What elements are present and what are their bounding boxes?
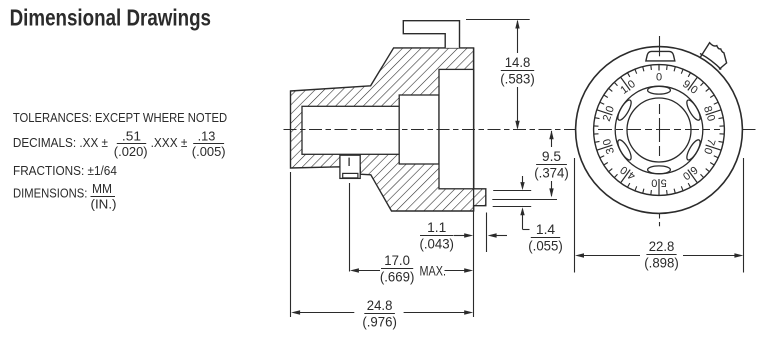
set screw washer [343,173,358,178]
svg-text:(.020): (.020) [114,144,148,159]
tolerance note line 2 [13,128,226,159]
svg-text:(IN.): (IN.) [91,196,117,211]
knob grip dimples [615,86,702,173]
svg-text:DIMENSIONS:: DIMENSIONS: [13,186,87,201]
center line through tab [659,47,661,56]
svg-text:Dimensional Drawings: Dimensional Drawings [10,4,211,30]
svg-text:50: 50 [648,177,667,189]
dim 17.0 label [380,252,415,284]
svg-text:14.8: 14.8 [505,54,531,70]
dim 22.8 arrows [575,253,743,257]
dim 9.5 label [534,148,569,180]
inner circle [627,98,691,162]
dim 1.1 arrow [454,233,473,237]
hub bushing [399,95,439,164]
set screw block [340,155,360,178]
dial scale numbers [600,71,718,188]
dial vertical center line [659,36,661,226]
dial minor tick marks [594,65,725,195]
svg-text:DECIMALS: .XX ±: DECIMALS: .XX ± [13,135,108,150]
dim 17.0 arrows [350,268,473,272]
knob body sectioned profile [291,48,486,211]
svg-text:(.669): (.669) [380,269,415,285]
index window tab [646,51,675,61]
svg-text:(.898): (.898) [644,255,679,271]
crosshair horizontal [598,129,720,131]
svg-text:1.4: 1.4 [536,221,555,237]
svg-text:FRACTIONS: ±1/64: FRACTIONS: ±1/64 [13,163,117,178]
svg-text:1.1: 1.1 [427,219,446,235]
set screw slot [348,158,350,166]
shaft hole [302,106,399,154]
svg-text:MAX.: MAX. [420,262,447,278]
skirt face extension line [473,211,475,317]
dial major tick marks [597,65,721,196]
svg-text:(.043): (.043) [419,236,454,252]
dim 1.4 label [528,221,563,253]
svg-text:TOLERANCES: EXCEPT WHERE NOTED: TOLERANCES: EXCEPT WHERE NOTED [13,110,227,125]
dim 14.8 extension line [466,19,530,21]
panel mounting surface lines [493,190,531,192]
svg-text:(.055): (.055) [528,238,563,254]
screw center extension line [349,183,351,272]
dim 9.5 arrows and line [549,130,553,197]
dim 14.8 label [500,54,535,86]
dial outer skirt circle [576,47,743,214]
dial backing disc [576,47,743,214]
knob left extension line [290,172,292,317]
svg-text:24.8: 24.8 [367,297,393,313]
svg-text:0: 0 [656,71,662,83]
svg-text:17.0: 17.0 [384,252,410,268]
skirt hollow cavity [439,69,474,188]
svg-text:9.5: 9.5 [542,148,561,164]
dim 1.4 left arrow [488,233,507,237]
horizontal center line [284,129,757,131]
svg-text:22.8: 22.8 [649,238,675,254]
svg-text:.XXX ±: .XXX ± [151,135,188,150]
svg-text:MM: MM [92,181,112,196]
svg-text:(.976): (.976) [362,314,397,330]
tolerance note line 4 [13,181,117,212]
dim 24.8 arrows [291,310,473,314]
knob circle [615,86,703,174]
svg-text:.51: .51 [122,128,141,143]
svg-text:.13: .13 [198,128,216,143]
skirt face line [473,48,475,211]
svg-text:(.583): (.583) [500,71,535,87]
dim 1.4 converging arrows [520,176,529,230]
brake lever with serrated edge [700,43,726,70]
tick ring circle [594,65,725,196]
locking tab side view [403,21,459,48]
foot right extension line [486,213,488,253]
svg-text:(.374): (.374) [534,165,569,181]
dim 14.8 arrows and line [515,20,519,130]
brake lever base line [700,54,721,70]
svg-text:(.005): (.005) [192,144,226,159]
dim 1.1 label [419,219,454,251]
crosshair vertical [659,104,661,156]
dim 22.8 extension lines [574,158,576,273]
dim 22.8 label [644,238,679,270]
dim 24.8 label [362,297,397,329]
